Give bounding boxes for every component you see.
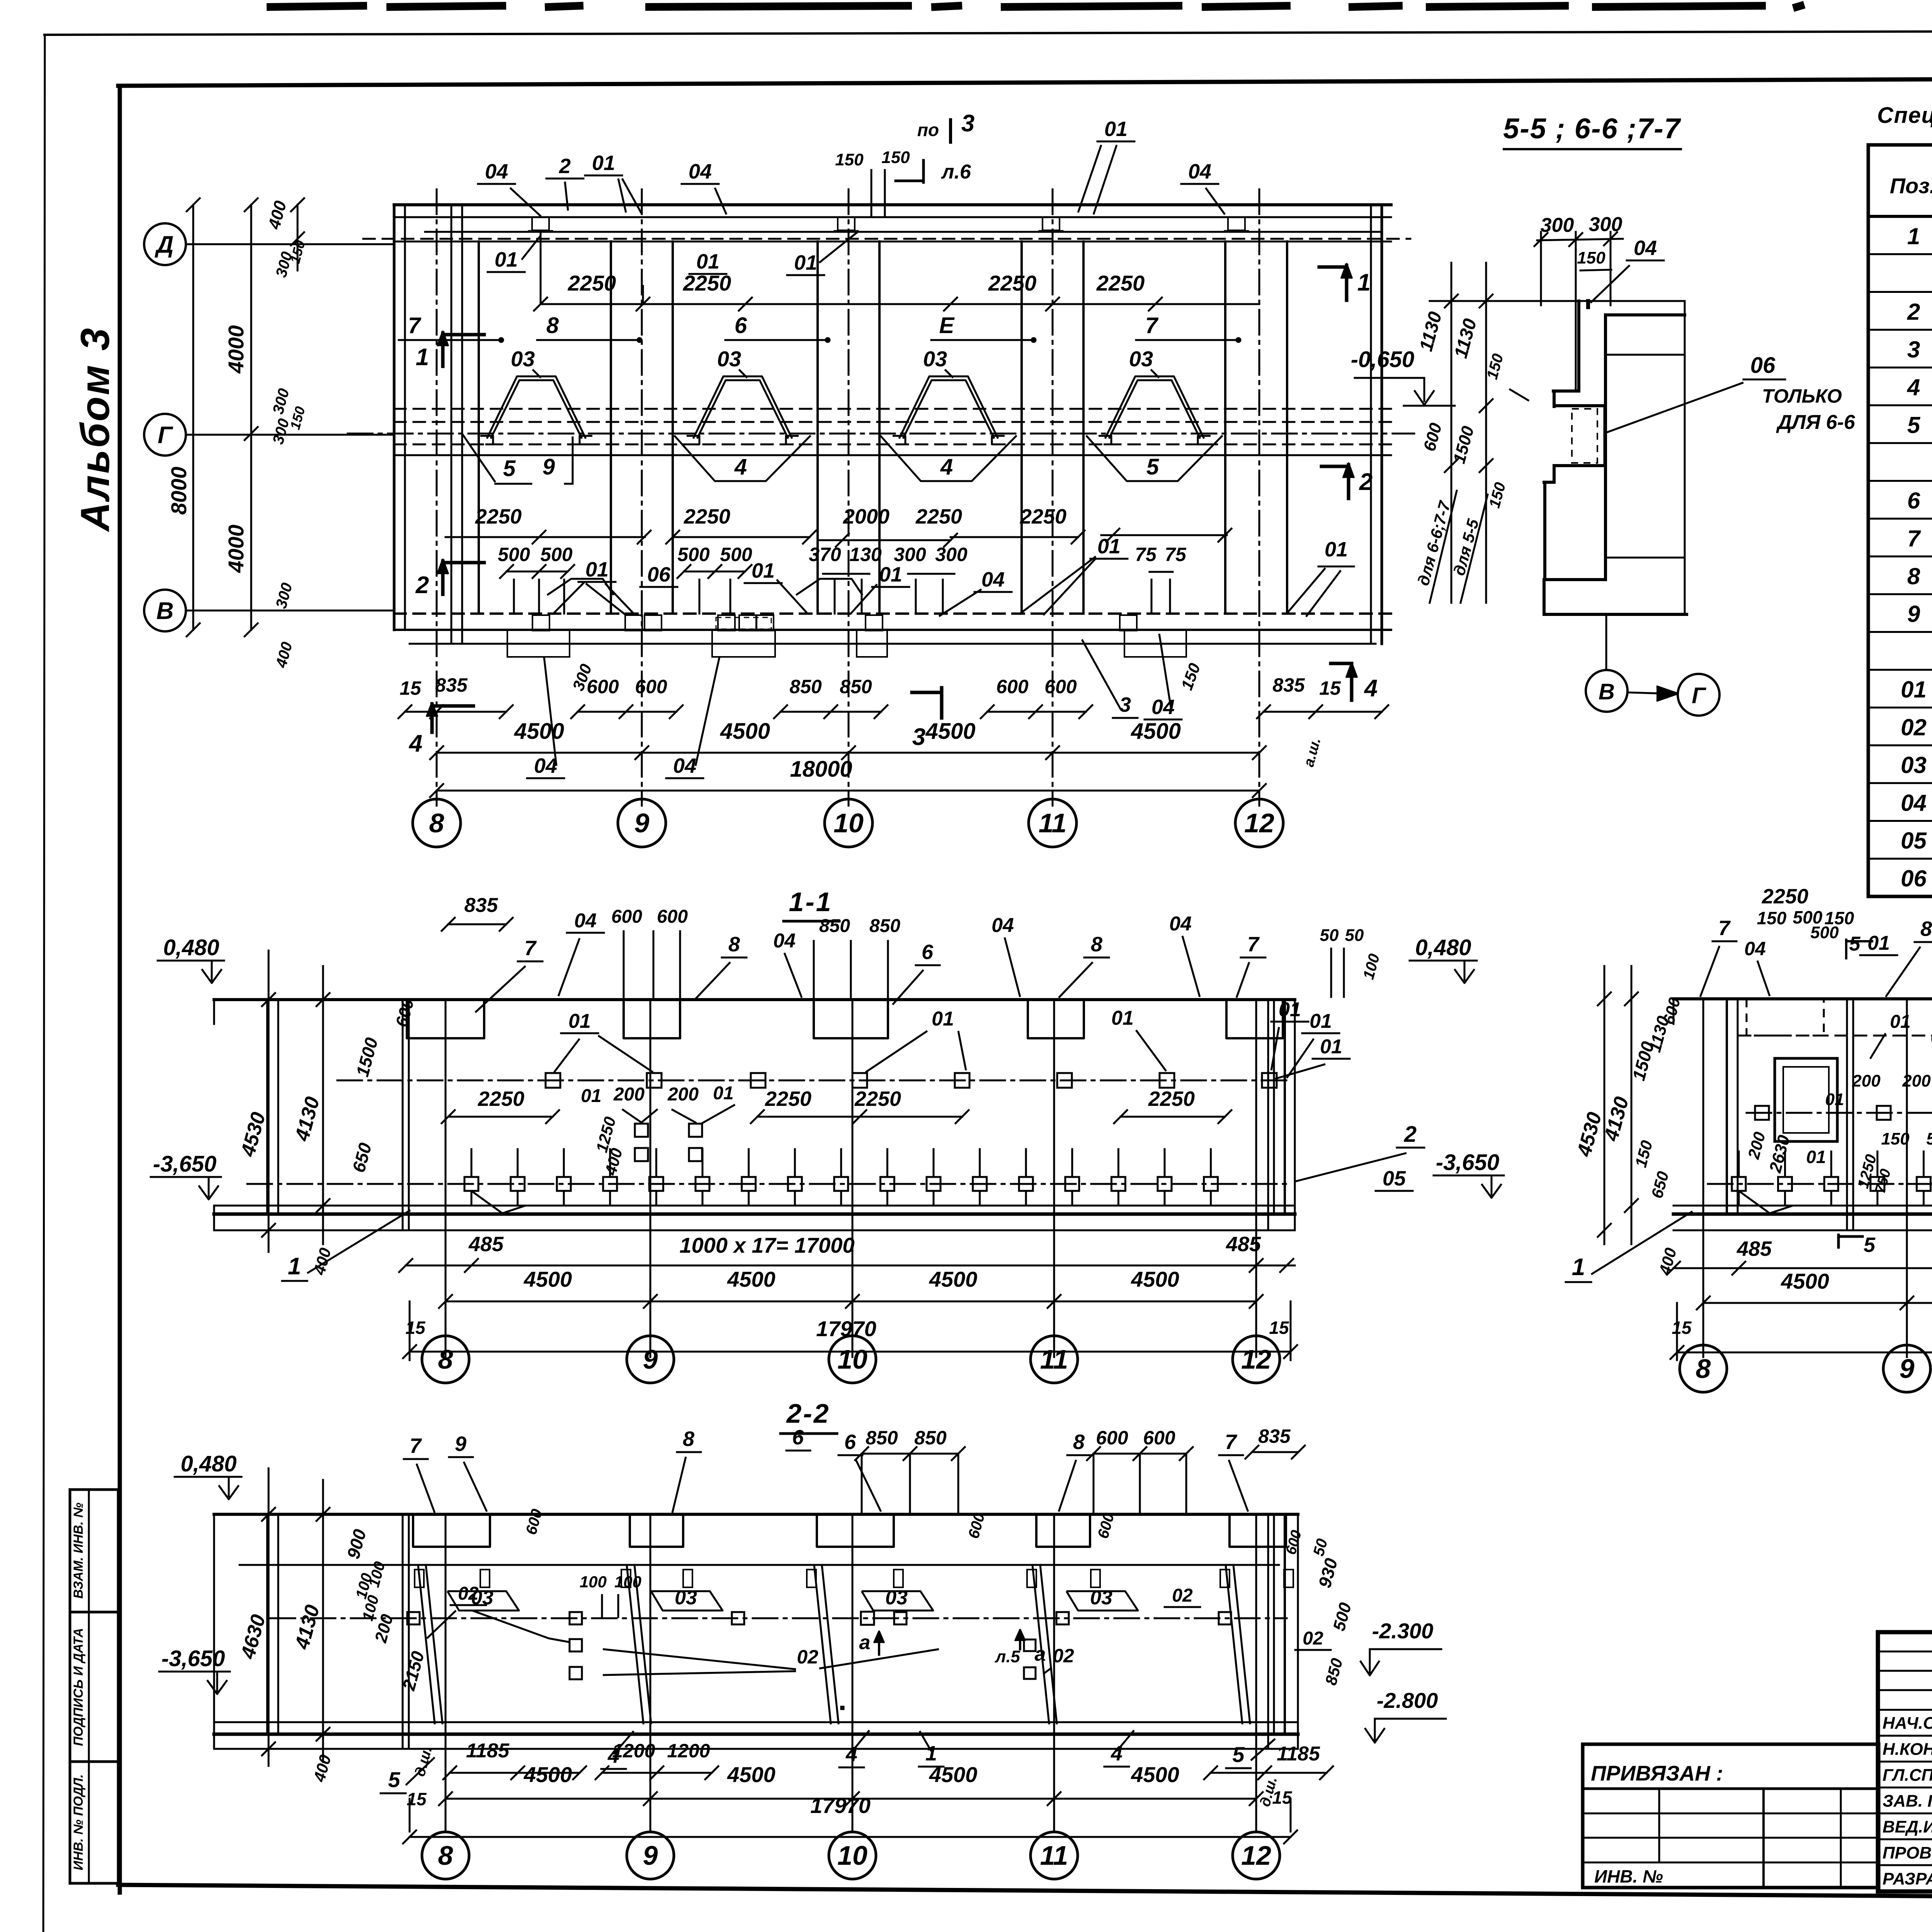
svg-text:-3,650: -3,650 bbox=[162, 1646, 225, 1671]
svg-text:4500: 4500 bbox=[1131, 1762, 1179, 1787]
s44 dashed line upper bbox=[1739, 1035, 1932, 1037]
svg-text:01: 01 bbox=[1890, 1012, 1910, 1032]
svg-text:2250: 2250 bbox=[988, 271, 1037, 295]
s22 beam rects bbox=[413, 1514, 490, 1547]
svg-text:ДЛЯ 6-6: ДЛЯ 6-6 bbox=[1776, 411, 1855, 434]
svg-text:-3,650: -3,650 bbox=[1436, 1150, 1499, 1175]
svg-text:8: 8 bbox=[1073, 1430, 1085, 1454]
svg-text:4: 4 bbox=[1364, 675, 1378, 702]
s11 top slab bbox=[214, 998, 1295, 1001]
svg-text:01: 01 bbox=[713, 1083, 733, 1104]
svg-text:17970: 17970 bbox=[810, 1793, 871, 1818]
svg-text:01: 01 bbox=[585, 558, 609, 581]
svg-text:8: 8 bbox=[1920, 917, 1932, 940]
svg-text:150: 150 bbox=[1757, 908, 1787, 928]
svg-text:15: 15 bbox=[1272, 1787, 1293, 1808]
svg-text:10: 10 bbox=[837, 1840, 867, 1871]
svg-text:04: 04 bbox=[1634, 236, 1657, 260]
svg-text:5: 5 bbox=[1907, 412, 1921, 438]
svg-text:600: 600 bbox=[611, 906, 642, 927]
svg-text:10: 10 bbox=[833, 808, 864, 838]
svg-text:15: 15 bbox=[1672, 1318, 1692, 1338]
svg-text:835: 835 bbox=[435, 674, 468, 696]
svg-text:04: 04 bbox=[673, 754, 696, 777]
svg-text:04: 04 bbox=[534, 754, 557, 777]
svg-text:7: 7 bbox=[1247, 933, 1260, 956]
svg-text:50: 50 bbox=[1320, 926, 1339, 945]
detail embedded plate 06 dashed bbox=[1572, 409, 1597, 463]
svg-text:500: 500 bbox=[720, 544, 752, 565]
s44 left dims bbox=[1604, 966, 1605, 1244]
svg-text:150: 150 bbox=[1881, 1129, 1910, 1148]
title block outer bbox=[1878, 1632, 1932, 1891]
svg-text:-2.300: -2.300 bbox=[1372, 1619, 1434, 1643]
plan footing pads bbox=[507, 630, 570, 657]
svg-text:2: 2 bbox=[415, 572, 429, 599]
svg-text:8: 8 bbox=[438, 1840, 453, 1871]
svg-text:03: 03 bbox=[511, 347, 535, 371]
plan funnels and callouts below G bbox=[462, 433, 495, 482]
svg-text:03: 03 bbox=[923, 347, 947, 371]
svg-text:ИНВ. №: ИНВ. № bbox=[1594, 1866, 1663, 1886]
svg-text:7: 7 bbox=[410, 1434, 422, 1458]
scan dark dashes top edge bbox=[270, 6, 363, 7]
s22 wall plates at slab bbox=[415, 1570, 424, 1587]
svg-text:15: 15 bbox=[400, 677, 422, 699]
svg-text:Н.КОНТР.: Н.КОНТР. bbox=[1883, 1740, 1932, 1759]
s11 bottom slab bbox=[214, 1205, 1295, 1207]
svg-text:03: 03 bbox=[675, 1587, 697, 1609]
svg-text:ИНВ. № ПОДЛ.: ИНВ. № ПОДЛ. bbox=[71, 1774, 86, 1871]
spec table grid bbox=[1868, 145, 1932, 896]
s22 lower squares bbox=[570, 1639, 582, 1651]
plan grid axis verticals bbox=[436, 189, 438, 806]
svg-text:200: 200 bbox=[1852, 1071, 1881, 1090]
svg-text:03: 03 bbox=[717, 347, 741, 371]
svg-text:ТОЛЬКО: ТОЛЬКО bbox=[1762, 385, 1842, 407]
svg-text:9: 9 bbox=[1907, 601, 1920, 627]
svg-text:300: 300 bbox=[935, 544, 968, 565]
s11 wall plates cluster bbox=[635, 1124, 648, 1137]
svg-text:01: 01 bbox=[1320, 1036, 1342, 1058]
svg-text:02: 02 bbox=[1053, 1645, 1074, 1667]
privyazan table bbox=[1583, 1744, 1879, 1888]
svg-text:300: 300 bbox=[1541, 214, 1574, 236]
svg-text:а: а bbox=[1035, 1643, 1046, 1665]
svg-text:600: 600 bbox=[657, 906, 688, 927]
svg-text:15: 15 bbox=[1319, 677, 1341, 699]
svg-text:9: 9 bbox=[643, 1840, 658, 1871]
svg-text:л.6: л.6 bbox=[940, 161, 971, 183]
svg-text:01: 01 bbox=[696, 250, 719, 273]
svg-text:9: 9 bbox=[455, 1432, 466, 1456]
svg-text:600: 600 bbox=[1096, 1427, 1128, 1449]
svg-text:03: 03 bbox=[1090, 1587, 1112, 1609]
svg-text:150: 150 bbox=[835, 150, 864, 169]
svg-text:150: 150 bbox=[881, 148, 910, 167]
svg-text:ЗАВ. ГР.: ЗАВ. ГР. bbox=[1883, 1792, 1932, 1811]
svg-text:04: 04 bbox=[1169, 913, 1192, 935]
svg-text:5: 5 bbox=[1232, 1742, 1245, 1767]
svg-text:Спецификация к схеме ра: Спецификация к схеме расположения констр… bbox=[1877, 103, 1932, 128]
svg-text:2-2: 2-2 bbox=[786, 1398, 830, 1429]
svg-text:9: 9 bbox=[634, 808, 650, 838]
svg-text:1: 1 bbox=[1357, 269, 1371, 296]
svg-text:5: 5 bbox=[1864, 1233, 1876, 1257]
svg-text:ВЗАМ. ИНВ. №: ВЗАМ. ИНВ. № bbox=[71, 1503, 86, 1599]
svg-text:75: 75 bbox=[1165, 544, 1187, 565]
plan cell partitions bbox=[478, 241, 480, 614]
svg-text:ВЕД.ИНЖ.: ВЕД.ИНЖ. bbox=[1883, 1818, 1932, 1837]
svg-text:01: 01 bbox=[879, 563, 902, 586]
svg-text:2: 2 bbox=[1404, 1122, 1417, 1147]
svg-text:3: 3 bbox=[1119, 693, 1131, 716]
svg-text:В: В bbox=[1599, 679, 1615, 704]
s22 axis verticals bbox=[445, 1514, 447, 1832]
svg-text:а: а bbox=[859, 1631, 871, 1654]
svg-text:ПОДПИСЬ И ДАТА: ПОДПИСЬ И ДАТА bbox=[71, 1628, 86, 1746]
svg-text:10: 10 bbox=[837, 1344, 867, 1374]
svg-text:-3,650: -3,650 bbox=[153, 1151, 216, 1177]
svg-text:2250: 2250 bbox=[915, 505, 962, 528]
svg-text:ПРИВЯЗАН :: ПРИВЯЗАН : bbox=[1591, 1761, 1723, 1785]
svg-text:8: 8 bbox=[438, 1344, 453, 1374]
svg-text:4: 4 bbox=[408, 730, 422, 757]
svg-text:ПРОВЕР.: ПРОВЕР. bbox=[1883, 1844, 1932, 1862]
svg-text:4500: 4500 bbox=[1131, 1267, 1179, 1291]
svg-text:300: 300 bbox=[894, 544, 926, 565]
svg-text:4000: 4000 bbox=[224, 325, 248, 374]
plan top wall plates bbox=[532, 217, 549, 230]
s22 walls bbox=[266, 1514, 269, 1734]
svg-text:4500: 4500 bbox=[929, 1762, 978, 1787]
plan right wall bbox=[1370, 205, 1372, 644]
svg-text:05: 05 bbox=[1901, 828, 1927, 854]
svg-text:01: 01 bbox=[1325, 538, 1348, 561]
svg-text:600: 600 bbox=[1143, 1427, 1175, 1449]
svg-text:01: 01 bbox=[581, 1086, 601, 1106]
svg-text:2250: 2250 bbox=[475, 505, 522, 528]
svg-text:3: 3 bbox=[912, 724, 925, 750]
svg-text:1200: 1200 bbox=[612, 1740, 655, 1762]
svg-text:4500: 4500 bbox=[720, 719, 770, 744]
svg-text:л.5: л.5 bbox=[995, 1647, 1020, 1666]
svg-text:500: 500 bbox=[498, 544, 530, 565]
svg-text:2250: 2250 bbox=[1148, 1087, 1195, 1111]
svg-text:04: 04 bbox=[574, 910, 597, 932]
svg-text:Г: Г bbox=[1692, 683, 1706, 708]
svg-text:4: 4 bbox=[940, 454, 953, 480]
svg-text:01: 01 bbox=[568, 1010, 591, 1032]
svg-text:06: 06 bbox=[647, 563, 671, 586]
svg-text:0,480: 0,480 bbox=[180, 1451, 236, 1476]
svg-text:9: 9 bbox=[643, 1344, 658, 1374]
svg-text:500: 500 bbox=[540, 544, 573, 565]
svg-text:по: по bbox=[917, 120, 939, 140]
svg-text:2250: 2250 bbox=[854, 1087, 901, 1111]
svg-text:03: 03 bbox=[1129, 347, 1153, 371]
svg-text:НАЧ.ОТД.: НАЧ.ОТД. bbox=[1883, 1714, 1932, 1733]
svg-text:04: 04 bbox=[1188, 160, 1211, 183]
svg-text:4: 4 bbox=[1907, 374, 1920, 400]
plan section markers bbox=[441, 333, 445, 366]
svg-text:2: 2 bbox=[1907, 299, 1920, 325]
s44 bottom slab bbox=[1673, 1205, 1932, 1207]
svg-text:5: 5 bbox=[503, 456, 516, 481]
svg-text:01: 01 bbox=[932, 1008, 954, 1030]
svg-text:Д: Д bbox=[155, 231, 174, 258]
s22 grid circles bbox=[422, 1832, 469, 1879]
svg-text:Е: Е bbox=[939, 313, 955, 338]
svg-text:6: 6 bbox=[922, 940, 934, 964]
sheet edge left line bbox=[43, 35, 45, 1932]
s11 beam rects bbox=[407, 1000, 484, 1038]
s22 bottom slab bbox=[214, 1721, 1298, 1723]
s22 left dims bbox=[268, 1468, 270, 1766]
svg-text:7: 7 bbox=[1907, 526, 1921, 551]
svg-text:Альбом 3: Альбом 3 bbox=[73, 327, 118, 532]
svg-text:1: 1 bbox=[288, 1253, 301, 1280]
svg-text:05: 05 bbox=[1383, 1167, 1406, 1190]
svg-text:04: 04 bbox=[485, 160, 508, 183]
svg-text:03: 03 bbox=[885, 1587, 908, 1609]
svg-text:75: 75 bbox=[1135, 544, 1157, 565]
svg-text:485: 485 bbox=[468, 1233, 504, 1256]
svg-text:11: 11 bbox=[1039, 808, 1067, 838]
svg-text:4500: 4500 bbox=[524, 1762, 572, 1787]
svg-text:4500: 4500 bbox=[1131, 719, 1181, 744]
svg-text:06: 06 bbox=[1901, 866, 1927, 891]
s44 grid circles bbox=[1702, 1303, 1704, 1345]
svg-text:4000: 4000 bbox=[224, 525, 248, 573]
s44 top slab bbox=[1673, 997, 1932, 1000]
svg-text:2: 2 bbox=[559, 155, 571, 178]
svg-text:2250: 2250 bbox=[765, 1087, 811, 1111]
detail bottom axis circles bbox=[1605, 614, 1607, 670]
svg-text:500: 500 bbox=[677, 544, 710, 565]
svg-text:3: 3 bbox=[961, 110, 975, 137]
svg-text:8: 8 bbox=[429, 808, 444, 838]
svg-text:4500: 4500 bbox=[514, 719, 564, 744]
svg-text:Поз.: Поз. bbox=[1890, 173, 1932, 198]
svg-text:15: 15 bbox=[405, 1318, 426, 1338]
svg-text:485: 485 bbox=[1736, 1237, 1772, 1260]
plan axis circles D G V bbox=[144, 223, 186, 265]
svg-text:01: 01 bbox=[1867, 932, 1890, 954]
detail profile outline bbox=[1450, 300, 1685, 302]
svg-text:5: 5 bbox=[1849, 933, 1861, 955]
svg-text:РАЗРАБ.: РАЗРАБ. bbox=[1883, 1869, 1932, 1888]
s22 top slab bbox=[214, 1513, 1298, 1516]
s11 grid circles bbox=[445, 1301, 447, 1336]
svg-text:01: 01 bbox=[794, 251, 817, 274]
svg-text:850: 850 bbox=[914, 1427, 947, 1449]
plan lower leader fans bbox=[553, 582, 585, 614]
svg-text:15: 15 bbox=[1269, 1318, 1289, 1338]
svg-text:850: 850 bbox=[840, 676, 872, 697]
svg-text:150: 150 bbox=[1577, 248, 1605, 267]
svg-text:8: 8 bbox=[683, 1427, 694, 1451]
svg-text:1: 1 bbox=[416, 344, 429, 371]
plan top wall bbox=[394, 203, 1391, 206]
svg-text:12: 12 bbox=[1241, 1840, 1271, 1871]
svg-text:100: 100 bbox=[580, 1573, 607, 1591]
svg-text:1000 х 17= 17000: 1000 х 17= 17000 bbox=[679, 1233, 854, 1257]
svg-text:835: 835 bbox=[464, 894, 498, 917]
sheet edge top line bbox=[44, 30, 1932, 35]
svg-text:8: 8 bbox=[546, 313, 559, 338]
svg-text:04: 04 bbox=[981, 568, 1005, 591]
svg-text:4500: 4500 bbox=[925, 719, 975, 744]
plan bottom 3 marker bbox=[940, 688, 944, 718]
svg-text:7: 7 bbox=[524, 937, 537, 960]
svg-text:04: 04 bbox=[1151, 696, 1175, 719]
svg-text:1: 1 bbox=[1907, 223, 1920, 249]
svg-text:600: 600 bbox=[587, 676, 619, 697]
svg-text:6: 6 bbox=[792, 1426, 804, 1449]
svg-text:600: 600 bbox=[635, 676, 667, 697]
svg-text:835: 835 bbox=[1272, 674, 1305, 696]
svg-text:02: 02 bbox=[1172, 1585, 1193, 1606]
svg-text:8: 8 bbox=[1091, 933, 1102, 956]
svg-text:50: 50 bbox=[1345, 926, 1364, 945]
svg-text:02: 02 bbox=[1303, 1628, 1323, 1649]
s11 axis verticals bbox=[445, 1000, 447, 1357]
svg-text:01: 01 bbox=[1806, 1147, 1826, 1167]
svg-text:2000: 2000 bbox=[843, 505, 889, 528]
s11 left dims bbox=[268, 951, 270, 1252]
svg-text:04: 04 bbox=[1901, 790, 1927, 816]
s44 lower plate row 05 bbox=[1708, 1183, 1932, 1185]
svg-text:11: 11 bbox=[1040, 1344, 1068, 1374]
s44 mid plate row bbox=[1747, 1112, 1932, 1114]
svg-text:6: 6 bbox=[844, 1430, 856, 1454]
svg-text:-2.800: -2.800 bbox=[1377, 1688, 1438, 1713]
svg-text:1185: 1185 bbox=[1277, 1743, 1320, 1765]
svg-text:03: 03 bbox=[1901, 752, 1927, 778]
svg-text:7: 7 bbox=[1225, 1430, 1238, 1454]
svg-text:5: 5 bbox=[1146, 454, 1159, 480]
svg-text:ГЛ.СПЕЦ.: ГЛ.СПЕЦ. bbox=[1883, 1765, 1932, 1784]
svg-text:3: 3 bbox=[1907, 337, 1920, 362]
svg-text:5-5 ; 6-6 ;7-7: 5-5 ; 6-6 ;7-7 bbox=[1503, 112, 1682, 145]
plan grid circles 8-12 bbox=[436, 791, 438, 799]
s11 lower plate row 05 bbox=[247, 1183, 1291, 1185]
svg-text:500: 500 bbox=[1810, 923, 1839, 942]
svg-text:02: 02 bbox=[797, 1646, 818, 1668]
svg-text:01: 01 bbox=[592, 151, 615, 175]
svg-text:-0,650: -0,650 bbox=[1351, 347, 1414, 372]
svg-text:8: 8 bbox=[1907, 563, 1920, 589]
svg-text:1200: 1200 bbox=[667, 1740, 710, 1762]
svg-text:12: 12 bbox=[1244, 808, 1274, 838]
svg-text:2250: 2250 bbox=[1096, 271, 1145, 295]
plan 01 plate symbols lower bbox=[547, 579, 614, 595]
svg-text:4500: 4500 bbox=[727, 1762, 776, 1787]
plan V band plates bbox=[532, 615, 549, 631]
svg-text:8000: 8000 bbox=[167, 467, 191, 515]
svg-text:2250: 2250 bbox=[684, 505, 730, 528]
svg-text:500: 500 bbox=[1926, 1129, 1932, 1148]
svg-text:01: 01 bbox=[1104, 117, 1128, 141]
svg-text:4500: 4500 bbox=[929, 1267, 978, 1291]
svg-text:7: 7 bbox=[408, 313, 422, 338]
svg-text:01: 01 bbox=[1310, 1010, 1332, 1032]
svg-text:02: 02 bbox=[458, 1583, 479, 1604]
svg-text:01: 01 bbox=[752, 559, 775, 582]
svg-text:04: 04 bbox=[1744, 938, 1766, 959]
plan hopper trapezoids 03 bbox=[487, 376, 586, 439]
svg-text:4500: 4500 bbox=[1781, 1269, 1829, 1293]
svg-text:600: 600 bbox=[996, 676, 1029, 697]
svg-text:850: 850 bbox=[789, 676, 822, 697]
svg-text:4500: 4500 bbox=[524, 1267, 572, 1291]
svg-text:7: 7 bbox=[1718, 917, 1731, 940]
svg-text:18000: 18000 bbox=[790, 757, 852, 782]
svg-text:6: 6 bbox=[735, 313, 747, 338]
svg-text:2250: 2250 bbox=[478, 1087, 524, 1111]
s44 openings bbox=[1775, 1058, 1837, 1141]
svg-text:9: 9 bbox=[543, 454, 555, 480]
drawing frame bbox=[118, 86, 122, 1893]
svg-text:1185: 1185 bbox=[466, 1740, 510, 1762]
svg-text:0,480: 0,480 bbox=[163, 935, 219, 960]
s11 upper plate row 01 bbox=[337, 1080, 1291, 1082]
svg-text:850: 850 bbox=[819, 916, 850, 936]
svg-text:04: 04 bbox=[992, 914, 1014, 937]
svg-text:7: 7 bbox=[1145, 313, 1159, 338]
svg-text:01: 01 bbox=[1111, 1007, 1134, 1029]
svg-text:370: 370 bbox=[809, 544, 841, 565]
svg-text:5: 5 bbox=[388, 1767, 400, 1792]
svg-text:2: 2 bbox=[1359, 469, 1372, 495]
svg-text:04: 04 bbox=[689, 160, 712, 183]
svg-text:200: 200 bbox=[667, 1084, 699, 1105]
s44 bottom markers 5 6 7 bbox=[1837, 1235, 1840, 1247]
svg-text:6: 6 bbox=[1907, 488, 1920, 514]
svg-text:100: 100 bbox=[614, 1573, 641, 1591]
svg-text:11: 11 bbox=[1040, 1840, 1068, 1871]
svg-text:485: 485 bbox=[1226, 1233, 1261, 1256]
s22 mid axis row bbox=[270, 1617, 1287, 1619]
plan left dim columns bbox=[192, 205, 194, 630]
svg-text:1-1: 1-1 bbox=[789, 887, 832, 917]
svg-text:2250: 2250 bbox=[1762, 885, 1808, 908]
svg-text:8: 8 bbox=[1696, 1354, 1711, 1384]
svg-text:01: 01 bbox=[495, 248, 518, 271]
svg-text:01: 01 bbox=[1825, 1090, 1844, 1109]
svg-text:2250: 2250 bbox=[1020, 505, 1066, 528]
svg-text:В: В bbox=[156, 598, 174, 624]
svg-text:0,480: 0,480 bbox=[1415, 935, 1471, 960]
svg-text:12: 12 bbox=[1241, 1344, 1271, 1374]
s44 walls bbox=[1726, 999, 1728, 1213]
svg-text:200: 200 bbox=[613, 1084, 645, 1105]
plan left end wall bbox=[451, 205, 452, 644]
s44 dashed beam rects bbox=[1747, 999, 1824, 1036]
s22 diagonal walls bbox=[418, 1565, 435, 1723]
plan axis G band bbox=[394, 408, 1391, 410]
svg-text:8: 8 bbox=[728, 933, 740, 956]
plan top leaders bbox=[510, 188, 541, 216]
svg-text:4500: 4500 bbox=[727, 1267, 776, 1291]
svg-text:9: 9 bbox=[1900, 1354, 1915, 1384]
svg-text:2250: 2250 bbox=[568, 271, 616, 295]
title block signature grid bbox=[1878, 1651, 1932, 1653]
s11 walls bbox=[266, 1000, 269, 1213]
plan axis V band bbox=[394, 612, 1391, 615]
svg-text:600: 600 bbox=[1044, 676, 1077, 697]
